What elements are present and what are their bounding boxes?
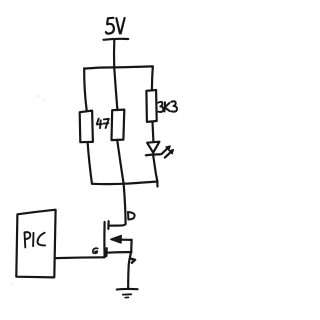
wire: top rail to resistor R1 top [84, 68, 87, 111]
value label 3K3 [158, 101, 177, 112]
power rail bar (5V supply symbol) [104, 38, 129, 41]
ground symbol [117, 289, 138, 298]
MOSFET Q1 source stub [107, 251, 131, 254]
resistor R3 [146, 90, 156, 122]
MOSFET Q1 drain channel tick [107, 221, 109, 229]
pin label S [131, 259, 135, 263]
MOSFET Q1 body arrow [111, 236, 132, 244]
value label 47 [97, 119, 109, 129]
IC U1 label PIC [25, 232, 46, 247]
wire: bottom rail [92, 182, 158, 185]
wire: resistor R3 to LED D1 [151, 122, 154, 141]
wire: source down to ground [128, 240, 131, 289]
paper speck 2 [43, 100, 44, 101]
resistor R2 [112, 110, 125, 141]
wire: gate to PIC [56, 256, 104, 259]
paper speck 3 [11, 283, 12, 284]
MOSFET Q1 source channel tick [105, 248, 107, 256]
paper speck 1 [37, 95, 39, 97]
wire: top rail down to resistor R3 [151, 67, 154, 91]
MOSFET Q1 gate plate [103, 222, 105, 257]
LED D1 light arrow 1 [162, 146, 171, 154]
LED D1 light arrow 2 [165, 150, 174, 158]
pin label D [128, 212, 135, 220]
net label 5V [106, 18, 125, 34]
LED D1 cathode bar [146, 153, 161, 156]
IC U1 box (PIC) [16, 210, 55, 278]
wire: LED D1 to bottom rail corner [153, 156, 157, 187]
wire: resistor R1 bottom to bottom rail [88, 142, 92, 183]
wire: resistor R2 bottom through bottom rail to MOSFET drain stub [109, 140, 125, 226]
pin label G [93, 248, 98, 253]
resistor R1 [80, 111, 93, 143]
wire: 5V bar down through top rail to resistor R2 top [114, 40, 117, 111]
wire: top rail [84, 66, 153, 68]
LED D1 anode triangle [147, 142, 159, 153]
